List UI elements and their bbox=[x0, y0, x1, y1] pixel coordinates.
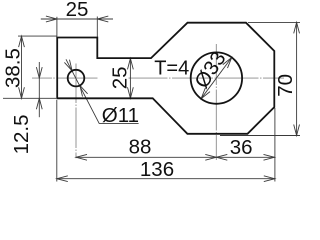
svg-text:38.5: 38.5 bbox=[2, 48, 25, 88]
svg-text:70: 70 bbox=[274, 74, 297, 97]
svg-text:136: 136 bbox=[140, 158, 174, 181]
svg-text:88: 88 bbox=[129, 136, 152, 159]
svg-text:T=4: T=4 bbox=[154, 57, 189, 79]
svg-text:25: 25 bbox=[66, 0, 89, 21]
svg-text:12.5: 12.5 bbox=[10, 114, 33, 154]
svg-text:25: 25 bbox=[109, 66, 132, 89]
svg-text:Ø11: Ø11 bbox=[102, 104, 139, 127]
svg-text:36: 36 bbox=[230, 136, 253, 159]
